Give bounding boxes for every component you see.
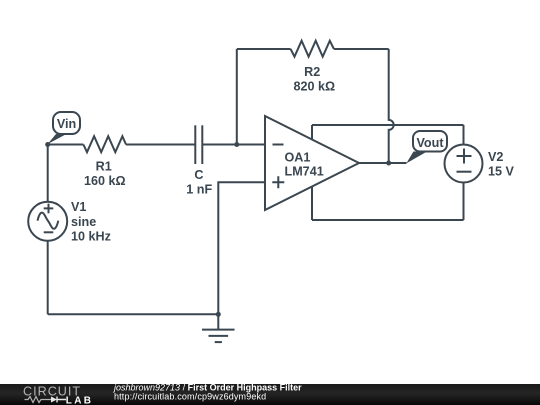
svg-text:sine: sine xyxy=(71,215,96,229)
svg-text:OA1: OA1 xyxy=(285,150,311,164)
wire to V2 plus terminal xyxy=(463,125,465,145)
svg-text:820 kΩ: 820 kΩ xyxy=(293,79,335,93)
node Vin junction xyxy=(45,142,50,147)
footer bar xyxy=(0,384,540,405)
svg-text:http://circuitlab.com/cp9wz6dy: http://circuitlab.com/cp9wz6dym9ekd xyxy=(114,392,266,402)
flag Vout xyxy=(406,131,447,163)
svg-text:Vin: Vin xyxy=(57,117,76,131)
svg-text:V1: V1 xyxy=(71,200,86,214)
wire op-amp supply left vertical xyxy=(311,125,313,220)
svg-text:160 kΩ: 160 kΩ xyxy=(84,174,126,188)
wire op-amp V- supply bottom rail xyxy=(312,219,464,221)
wire V1 bottom down xyxy=(47,241,49,314)
wire op-amp V+ supply top rail xyxy=(312,124,464,126)
wire ground rail xyxy=(48,313,219,315)
flag Vin xyxy=(48,112,80,144)
svg-text:C: C xyxy=(194,168,203,182)
capacitor C xyxy=(186,125,212,196)
wire R1 to C xyxy=(126,144,195,146)
wire feedback top left xyxy=(237,48,291,50)
wire feedback up from node xyxy=(236,49,238,145)
svg-text:R2: R2 xyxy=(304,65,320,79)
wire R2 to corner xyxy=(334,48,389,50)
resistor R1 xyxy=(83,136,126,188)
wire from V2 minus terminal xyxy=(463,183,465,221)
svg-text:15 V: 15 V xyxy=(488,165,515,179)
svg-text:R1: R1 xyxy=(96,159,112,173)
wire C to op-amp minus input xyxy=(202,144,265,146)
wire feedback down with hop xyxy=(389,49,394,163)
wire Vin node down to V1 xyxy=(47,145,49,203)
node C to feedback junction xyxy=(234,142,239,147)
voltage source V2 xyxy=(445,145,515,183)
wire Vin node to R1 xyxy=(48,144,84,146)
wire op-amp output xyxy=(359,162,407,164)
node ground junction xyxy=(216,312,221,317)
op-amp U1 OA1 xyxy=(265,116,359,210)
svg-text:10 kHz: 10 kHz xyxy=(71,230,111,244)
svg-text:1 nF: 1 nF xyxy=(186,183,212,197)
footer text xyxy=(113,382,302,401)
wire plus input xyxy=(218,182,265,314)
node output junction xyxy=(386,161,391,166)
svg-text:LM741: LM741 xyxy=(285,165,324,179)
svg-text:V2: V2 xyxy=(488,150,503,164)
resistor R2 xyxy=(291,41,336,94)
ground xyxy=(202,314,235,342)
voltage source V1 xyxy=(28,200,111,243)
logo CircuitLab xyxy=(23,385,93,405)
svg-text:LAB: LAB xyxy=(66,395,93,405)
svg-text:Vout: Vout xyxy=(416,136,444,150)
